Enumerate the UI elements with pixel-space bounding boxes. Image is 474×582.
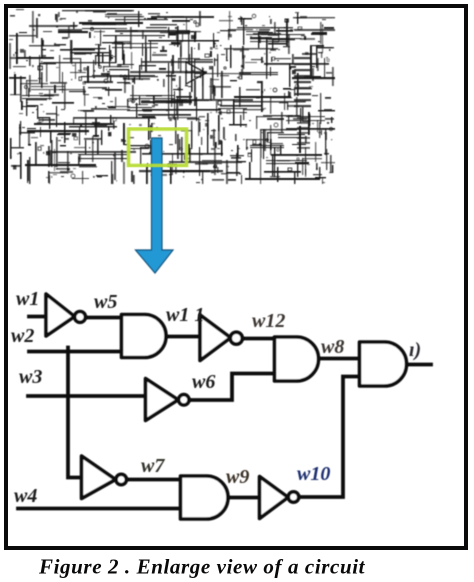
AND gate U2 (w5,w2 -> w11) xyxy=(122,315,167,358)
svg-text:Figure 2 . Enlarge view of a: Figure 2 . Enlarge view of a circuit xyxy=(38,555,366,579)
inverter U7 (-> w7) xyxy=(82,456,116,499)
wire w12: inverter U3 output to AND U4 top input xyxy=(242,337,275,341)
svg-text:w8: w8 xyxy=(321,336,344,358)
wire branch from w2 down to inverter U7 xyxy=(68,348,82,478)
wire w4: input to AND U8 bottom input xyxy=(18,507,181,511)
svg-text:ı): ı) xyxy=(409,339,421,361)
wire output of AND U5 xyxy=(406,363,431,367)
wire w6: inverter U6 output up to AND U4 bottom input xyxy=(189,374,275,401)
svg-text:w5: w5 xyxy=(94,291,117,313)
wire w5: inverter U1 output to AND U2 top input xyxy=(85,316,123,320)
inverter U1 (w1 -> w5) xyxy=(46,294,75,336)
wire w9: AND U8 output to inverter U9 xyxy=(227,496,260,500)
AND gate U8 (w7,w4 -> w9) xyxy=(181,476,229,519)
zoom arrow xyxy=(136,138,174,273)
inverter U6 (w3 -> w6) xyxy=(146,379,179,421)
svg-text:w6: w6 xyxy=(192,371,215,393)
wire w3: input to inverter U6 xyxy=(28,394,146,398)
wire w2: input to AND U2 bottom input xyxy=(29,350,123,354)
svg-text:w10: w10 xyxy=(297,463,330,485)
svg-text:w4: w4 xyxy=(14,485,37,507)
svg-text:w7: w7 xyxy=(141,455,165,477)
highlight box on thumbnail xyxy=(129,129,187,166)
dense circuit overview thumbnail xyxy=(9,9,335,184)
AND gate U4 (w12,w6 -> w8) xyxy=(275,337,319,381)
wire w8: AND U4 output to AND U5 top input xyxy=(318,357,360,361)
inverter U3 (w11 -> w12) xyxy=(200,315,231,361)
svg-text:w1: w1 xyxy=(16,288,39,310)
svg-text:w9: w9 xyxy=(226,466,249,488)
wire w11: AND U2 output to inverter U3 xyxy=(165,335,201,339)
wire w1 input stub xyxy=(29,315,46,319)
inverter U9 (w9 -> w10) xyxy=(260,477,289,519)
svg-text:w3: w3 xyxy=(19,366,42,388)
svg-text:w12: w12 xyxy=(252,310,285,332)
AND gate U5 (w8,w10 -> output) xyxy=(360,342,407,386)
wire w10: inverter U9 output up to AND U5 bottom input xyxy=(299,377,360,498)
svg-text:w1 1: w1 1 xyxy=(166,304,204,326)
wire w7: inverter U7 output to AND U8 top input xyxy=(127,478,181,482)
svg-text:w2: w2 xyxy=(11,325,34,347)
